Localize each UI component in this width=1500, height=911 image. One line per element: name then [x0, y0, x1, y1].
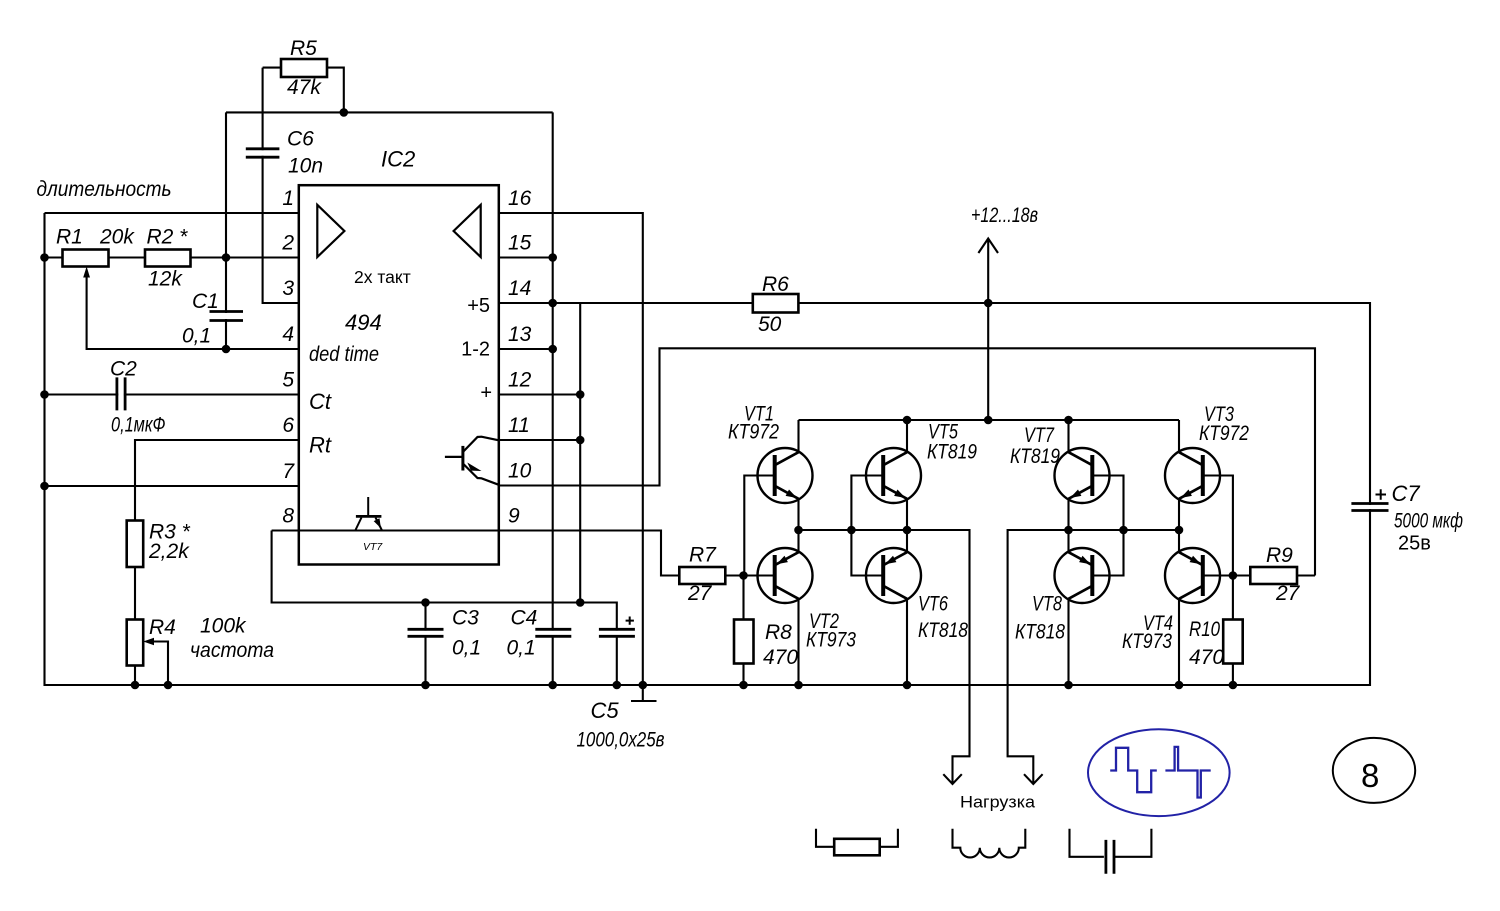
svg-text:100k: 100k [200, 615, 247, 638]
svg-text:VT8: VT8 [1032, 593, 1062, 616]
svg-text:C6: C6 [287, 128, 314, 151]
svg-text:+: + [480, 382, 492, 404]
svg-text:15: 15 [508, 232, 532, 255]
svg-text:VT6: VT6 [918, 593, 948, 616]
svg-text:0,1мкФ: 0,1мкФ [111, 414, 166, 437]
svg-text:470: 470 [763, 646, 798, 669]
svg-text:R10: R10 [1189, 618, 1220, 641]
svg-text:Rt: Rt [309, 433, 332, 458]
svg-text:+5: +5 [467, 295, 490, 317]
svg-text:КТ818: КТ818 [918, 619, 968, 642]
svg-text:Нагрузка: Нагрузка [960, 793, 1036, 812]
svg-text:2: 2 [281, 232, 294, 255]
svg-text:КТ819: КТ819 [1010, 445, 1060, 468]
svg-text:8: 8 [1361, 757, 1379, 794]
svg-text:R9: R9 [1266, 544, 1293, 567]
svg-text:13: 13 [508, 323, 532, 346]
svg-text:ded time: ded time [309, 343, 379, 366]
svg-text:8: 8 [282, 505, 294, 528]
svg-text:КТ972: КТ972 [728, 421, 779, 444]
svg-text:R2 *: R2 * [147, 226, 189, 249]
svg-text:20k: 20k [99, 226, 135, 249]
svg-text:7: 7 [282, 460, 295, 483]
svg-text:5000 мкф: 5000 мкф [1394, 510, 1463, 533]
svg-text:Ct: Ct [309, 389, 332, 414]
svg-text:14: 14 [508, 277, 531, 300]
svg-text:C4: C4 [511, 607, 538, 630]
svg-text:47k: 47k [287, 76, 322, 99]
svg-text:470: 470 [1189, 646, 1224, 669]
svg-text:КТ972: КТ972 [1199, 422, 1249, 445]
svg-text:C2: C2 [110, 358, 137, 381]
svg-text:50: 50 [758, 313, 782, 336]
svg-text:R8: R8 [765, 621, 792, 644]
svg-text:9: 9 [508, 505, 520, 528]
svg-text:27: 27 [687, 582, 713, 605]
svg-text:C3: C3 [452, 607, 479, 630]
svg-text:0,1: 0,1 [507, 637, 536, 660]
svg-text:1: 1 [282, 187, 294, 210]
svg-text:494: 494 [345, 310, 382, 335]
svg-text:R5: R5 [290, 37, 317, 60]
svg-text:КТ973: КТ973 [1122, 630, 1172, 653]
svg-text:4: 4 [282, 323, 294, 346]
svg-text:2х такт: 2х такт [354, 267, 411, 287]
svg-text:0,1: 0,1 [182, 325, 211, 348]
svg-text:R1: R1 [56, 226, 83, 249]
svg-text:+12...18в: +12...18в [971, 204, 1038, 227]
svg-text:длительность: длительность [37, 178, 172, 201]
svg-text:R6: R6 [762, 273, 789, 296]
svg-text:C7: C7 [1392, 481, 1421, 506]
svg-text:КТ819: КТ819 [927, 441, 977, 464]
svg-text:0,1: 0,1 [452, 637, 481, 660]
svg-text:1-2: 1-2 [461, 339, 490, 361]
svg-text:10: 10 [508, 460, 532, 483]
svg-text:частота: частота [190, 639, 274, 662]
svg-text:27: 27 [1275, 582, 1301, 605]
svg-text:VT7: VT7 [363, 541, 383, 553]
svg-text:16: 16 [508, 187, 532, 210]
svg-text:C5: C5 [591, 698, 620, 723]
svg-text:3: 3 [282, 277, 294, 300]
svg-text:R4: R4 [149, 616, 176, 639]
svg-text:12k: 12k [148, 267, 183, 290]
svg-text:6: 6 [282, 414, 294, 437]
svg-text:IC2: IC2 [381, 147, 415, 172]
svg-text:КТ818: КТ818 [1015, 621, 1065, 644]
svg-text:2,2k: 2,2k [148, 540, 190, 563]
svg-text:КТ973: КТ973 [806, 629, 856, 652]
svg-text:1000,0х25в: 1000,0х25в [577, 729, 665, 752]
svg-text:VT7: VT7 [1024, 424, 1055, 447]
svg-text:10n: 10n [288, 155, 323, 178]
svg-text:25в: 25в [1398, 533, 1431, 555]
svg-text:12: 12 [508, 369, 532, 392]
svg-text:11: 11 [508, 414, 530, 437]
svg-text:5: 5 [282, 369, 294, 392]
svg-text:C1: C1 [192, 290, 219, 313]
svg-text:R7: R7 [689, 544, 717, 567]
